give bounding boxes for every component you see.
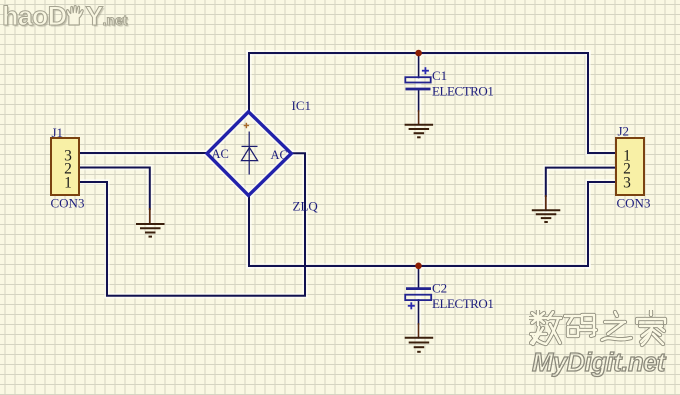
ground symbol (J2 pin2 net): [532, 210, 561, 222]
ground pin segment under J1 pin2 wire: [149, 209, 151, 224]
bridge rectifier IC1 (ZLQ): [207, 98, 318, 214]
bridge diamond outline: [207, 112, 291, 196]
wire J1 pin1 loop to bridge AC right: [79, 153, 305, 295]
ground pin segment under C1: [418, 111, 420, 125]
svg-text:IC1: IC1: [292, 98, 312, 113]
svg-text:ZLQ: ZLQ: [293, 199, 319, 214]
ground pin segment under J2 pin2 wire: [545, 196, 547, 210]
svg-text:C1: C1: [432, 68, 447, 83]
wire C2 tap from bottom rail: [418, 266, 420, 288]
svg-text:AC: AC: [271, 148, 288, 162]
wire C1 negative lead down: [418, 90, 420, 111]
ground symbol (C1 negative): [405, 125, 434, 138]
svg-text:AC: AC: [212, 147, 229, 161]
bridge halo: [207, 112, 292, 196]
wire C1 tap from top rail: [418, 53, 420, 78]
wire bridge bottom vertex to bottom rail: [248, 196, 250, 267]
junction node top rail / C1: [415, 50, 422, 57]
capacitor C1 (ELECTRO1): [405, 67, 493, 98]
svg-text:CON3: CON3: [617, 196, 651, 211]
C2 plus mark: [408, 302, 415, 309]
C2 positive plate: [406, 287, 431, 290]
ground symbol (C2 negative): [405, 338, 434, 352]
wire top rail (bridge + to J2 pin1): [249, 52, 588, 54]
C2 negative plate: [405, 295, 431, 300]
junction node bottom rail / C2: [415, 263, 422, 270]
connector J2 (CON3): [616, 124, 650, 211]
polarity plus mark of bridge: [244, 123, 249, 128]
wire J1 pin3 to bridge AC left: [79, 152, 207, 154]
svg-text:1: 1: [64, 174, 72, 191]
watermark logo haoDIY.net (top-left): [2, 1, 127, 32]
connector J1 (CON3): [51, 125, 85, 211]
wire bottom rail right corner up to J2 pin 3: [588, 182, 616, 266]
wire bottom rail (bridge - to J2 pin3): [249, 265, 588, 267]
diode symbol inside bridge: [241, 132, 257, 175]
wire C2 negative lead down: [418, 300, 420, 324]
svg-text:J2: J2: [618, 124, 630, 139]
wire J2 pin2 to ground: [546, 168, 616, 196]
wire J1 pin2 to ground: [79, 168, 150, 210]
ground pin segment under C2: [418, 324, 420, 338]
C1 plus mark: [422, 67, 429, 74]
svg-text:ELECTRO1: ELECTRO1: [432, 296, 493, 311]
svg-text:C2: C2: [432, 280, 447, 295]
svg-text:3: 3: [623, 174, 631, 191]
svg-text:J1: J1: [52, 125, 64, 140]
ground symbol (J1 pin2 net): [136, 224, 165, 237]
wire halos (jpeg-style light ring around wires): [79, 53, 616, 338]
C1 negative plate: [406, 88, 431, 91]
C1 positive plate: [405, 77, 430, 82]
capacitor C2 (ELECTRO1): [405, 280, 493, 311]
wire top rail right corner down to J2 pin 1: [588, 53, 616, 153]
watermark MyDigit.net / CJK (bottom-right): [529, 310, 671, 378]
svg-text:CON3: CON3: [51, 196, 85, 211]
svg-text:ELECTRO1: ELECTRO1: [432, 84, 493, 99]
wire bridge top vertex to top rail: [248, 53, 250, 112]
